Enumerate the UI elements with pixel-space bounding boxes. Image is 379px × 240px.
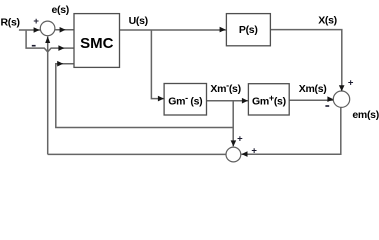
- svg-text:+: +: [237, 133, 243, 144]
- svg-text:+: +: [33, 16, 39, 27]
- svg-text:Xm-(s): Xm-(s): [210, 81, 240, 96]
- svg-text:SMC: SMC: [80, 35, 114, 52]
- svg-text:Gm+(s): Gm+(s): [252, 93, 286, 108]
- svg-text:P(s): P(s): [239, 24, 258, 36]
- svg-text:+: +: [251, 146, 257, 157]
- svg-text:R(s): R(s): [1, 16, 20, 28]
- svg-text:e(s): e(s): [52, 4, 69, 16]
- svg-text:U(s): U(s): [129, 15, 148, 27]
- svg-text:+: +: [348, 78, 354, 89]
- svg-text:em(s): em(s): [352, 109, 379, 121]
- svg-text:Xm(s): Xm(s): [299, 83, 327, 95]
- svg-text:X(s): X(s): [318, 15, 337, 27]
